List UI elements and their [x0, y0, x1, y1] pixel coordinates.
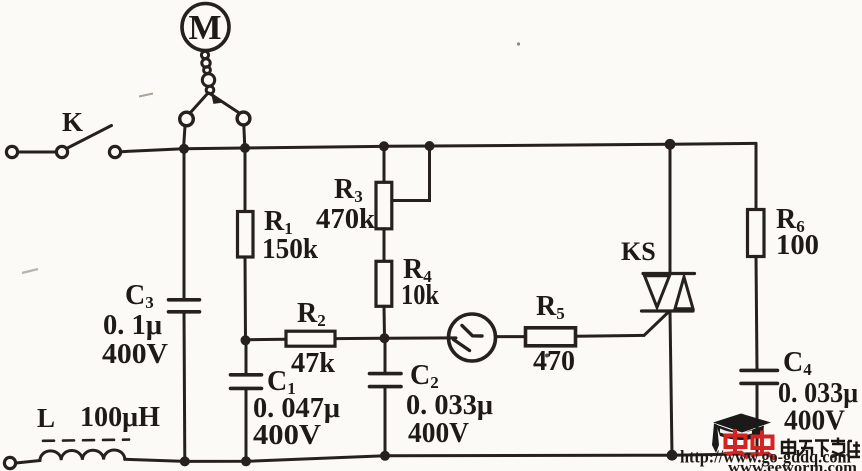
svg-text:0. 1μ: 0. 1μ	[103, 310, 162, 341]
neon lamp electrode upper	[462, 326, 482, 337]
node I junction	[380, 451, 390, 461]
wire C4 to bottom bus	[756, 383, 759, 453]
wire node C to R2	[246, 338, 287, 342]
selector contact right	[237, 112, 250, 125]
resistor R5	[526, 328, 576, 346]
triac KS top bar	[643, 272, 695, 275]
svg-text:M: M	[188, 8, 221, 47]
svg-text:400V: 400V	[102, 339, 168, 370]
svg-text:470: 470	[533, 346, 575, 377]
resistor R4	[376, 261, 392, 306]
svg-text:www.eeworm.com: www.eeworm.com	[728, 460, 858, 471]
wire K to node A	[121, 149, 184, 152]
inductor core dashed line	[43, 440, 129, 441]
watermark chongchong char 1	[724, 429, 749, 458]
triac KS left triangle	[645, 276, 670, 308]
svg-text:0. 033μ: 0. 033μ	[406, 390, 493, 421]
capacitor C1	[231, 375, 262, 389]
wire R3 to R4	[383, 229, 386, 261]
svg-text:100μH: 100μH	[80, 402, 160, 433]
wire contact-right to top bus	[244, 125, 245, 148]
selector switch arm right	[209, 93, 239, 113]
svg-text:150k: 150k	[262, 234, 318, 265]
wire K1-K2	[18, 151, 57, 154]
watermark graduation cap	[712, 414, 771, 454]
wire R1 to node C	[244, 257, 248, 340]
wire C3 to bottom bus	[183, 312, 187, 462]
svg-text:100: 100	[776, 230, 819, 261]
svg-text:0. 033μ: 0. 033μ	[778, 378, 858, 409]
wire node A down to C3	[183, 149, 186, 299]
wire node B down to R1	[244, 148, 247, 212]
resistor R6	[748, 210, 765, 257]
bottom bus wire	[125, 454, 757, 462]
resistor R1	[238, 212, 254, 258]
capacitor C4	[741, 370, 778, 383]
neon lamp V1	[449, 314, 496, 361]
wire triac to bottom bus	[670, 311, 672, 455]
wire lamp to R5	[496, 335, 526, 338]
node F junction	[665, 139, 676, 150]
wire R2 to node D	[335, 337, 385, 340]
wire R6 to C4	[756, 257, 757, 371]
selector switch arm left	[191, 93, 209, 113]
wire node D to neon lamp	[385, 336, 456, 339]
wire R4 to node D	[383, 306, 387, 338]
inductor terminal	[4, 457, 15, 468]
node E junction	[379, 141, 389, 151]
selector contact left	[180, 112, 194, 126]
svg-text:400V: 400V	[253, 420, 321, 451]
wire terminal to L	[16, 461, 40, 464]
switch K terminal 2	[56, 146, 67, 157]
node H junction	[241, 456, 251, 466]
svg-text:400V: 400V	[408, 418, 469, 449]
wire node D to C2	[384, 338, 387, 373]
node B junction	[240, 143, 250, 153]
selector arrowhead	[212, 94, 222, 103]
wire C2 to bottom bus	[384, 387, 387, 456]
wire C1 to bottom bus	[245, 388, 248, 461]
top bus wire	[184, 143, 757, 148]
resistor R2	[286, 331, 335, 346]
node E2 wiper junction	[425, 141, 435, 151]
neon lamp electrode lower	[454, 340, 470, 351]
node D junction	[380, 333, 390, 343]
wire R5 to gate	[576, 334, 645, 338]
triac KS bottom bar	[642, 309, 694, 312]
stray scan mark	[139, 94, 153, 97]
triac KS right triangle	[675, 277, 693, 309]
svg-text:400V: 400V	[784, 406, 845, 437]
wire node E down to R3	[383, 146, 386, 182]
node G junction	[180, 456, 190, 466]
switch K blade	[68, 126, 112, 149]
motor flexible lead coil	[201, 51, 214, 93]
triac gate lead	[644, 312, 669, 335]
R3 wiper tap wire	[392, 146, 430, 201]
node C junction	[241, 335, 251, 345]
right drop wire	[755, 143, 758, 209]
resistor R3	[376, 182, 392, 229]
node A junction	[179, 144, 189, 154]
watermark site name glyphs	[782, 438, 860, 458]
wire contact-left to top bus	[184, 126, 186, 149]
switch K terminal 1	[6, 146, 17, 157]
inductor L1 coil	[40, 450, 125, 461]
svg-text:K: K	[62, 107, 83, 137]
wire node F down to triac	[669, 144, 672, 273]
svg-text:L: L	[37, 403, 55, 433]
svg-text:10k: 10k	[401, 280, 439, 311]
switch K terminal 3	[109, 146, 120, 157]
motor M1 circle	[182, 4, 229, 51]
watermark chongchong char 2	[751, 431, 776, 460]
svg-text:470k: 470k	[316, 204, 375, 235]
capacitor C2	[370, 374, 402, 387]
svg-text:47k: 47k	[291, 348, 335, 379]
node J junction	[667, 450, 678, 461]
svg-text:KS: KS	[621, 237, 656, 266]
wire node C to C1	[245, 340, 248, 375]
capacitor C3	[169, 300, 200, 312]
